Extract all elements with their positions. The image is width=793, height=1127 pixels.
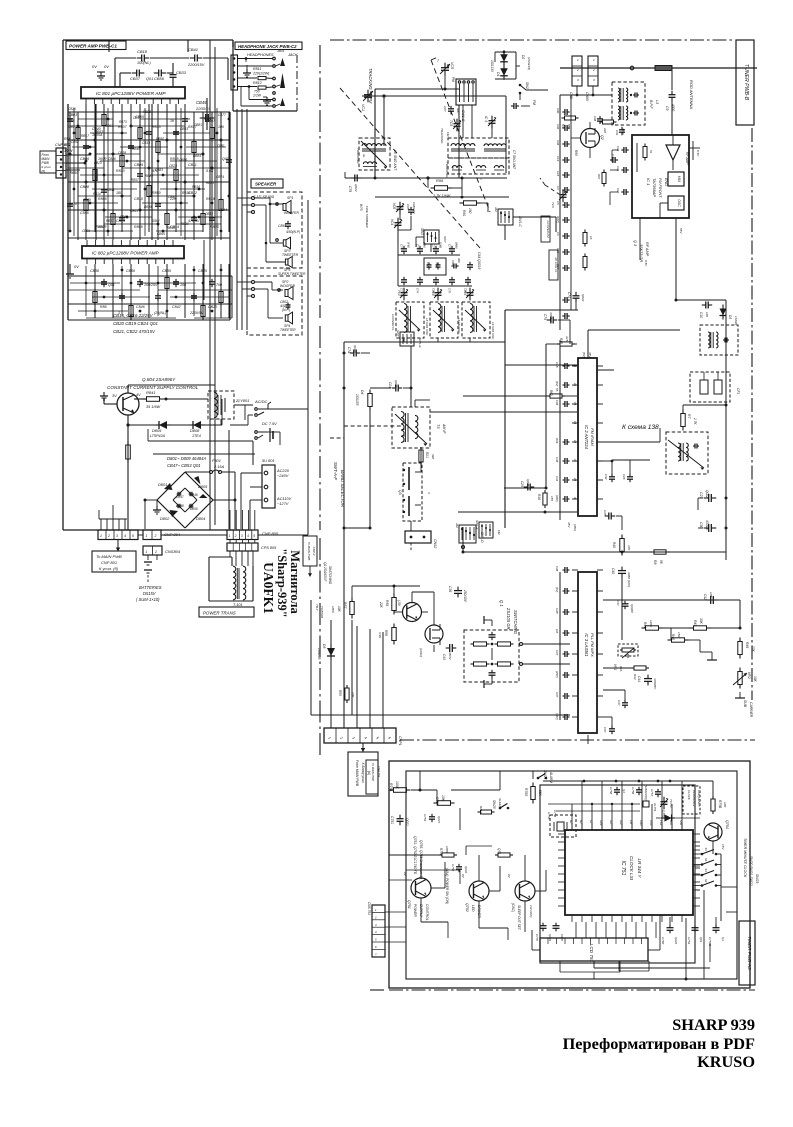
connector CN2 tuner — [585, 56, 598, 101]
svg-text:C9: C9 — [665, 106, 669, 110]
wire eq box top caps — [484, 616, 492, 688]
svg-text:Q022: Q022 — [526, 479, 530, 487]
svg-text:C846: C846 — [80, 211, 89, 215]
equalizer network dashed box — [464, 630, 527, 682]
svg-text:C71: C71 — [400, 244, 404, 250]
svg-text:2: 2 — [374, 915, 377, 919]
resistor R95 220 — [600, 120, 617, 133]
resistor R21 390 — [419, 447, 435, 465]
svg-text:CB83: CB83 — [180, 127, 188, 131]
svg-text:R841: R841 — [146, 390, 156, 395]
wire supply rails — [126, 399, 222, 530]
svg-text:C758: C758 — [609, 787, 613, 795]
svg-text:47DDV: 47DDV — [549, 312, 553, 323]
svg-text:R765: R765 — [524, 788, 528, 796]
svg-text:C79: C79 — [543, 314, 547, 320]
trimmer VC6 — [392, 202, 404, 215]
svg-text:R807: R807 — [118, 125, 128, 129]
wire mixer out bus — [675, 299, 727, 431]
svg-text:R873: R873 — [119, 120, 127, 124]
svg-text:C4?: C4? — [555, 650, 559, 656]
speaker SP4 tweeter R — [268, 289, 296, 332]
speaker SP2 woofer — [278, 287, 293, 313]
svg-text:C97: C97 — [616, 188, 620, 194]
svg-text:R95: R95 — [574, 150, 578, 156]
IC2 pin labels — [573, 352, 592, 499]
capacitors stage1 column — [67, 116, 232, 223]
svg-text:10K: 10K — [441, 795, 445, 802]
tracking coil group dashed box upper — [445, 138, 509, 178]
trimmer TC FM — [551, 190, 567, 208]
svg-text:(10V): (10V) — [555, 713, 559, 720]
svg-text:R42: R42 — [633, 674, 637, 680]
capacitor C44 4700/6V — [637, 675, 657, 691]
svg-text:ROD ANTENNA: ROD ANTENNA — [689, 80, 694, 109]
resistor R58 3.9K — [378, 624, 396, 645]
svg-text:56: 56 — [659, 560, 663, 564]
svg-text:1: 1 — [229, 534, 231, 538]
svg-text:RF AMP: RF AMP — [685, 152, 689, 165]
svg-text:2200/5V: 2200/5V — [189, 311, 204, 315]
svg-text:TRACKING: TRACKING — [445, 162, 449, 178]
antenna coil L6 SW2 ANT dashed box — [356, 138, 397, 171]
svg-text:CB08: CB08 — [80, 185, 89, 189]
label SPEAKER box — [251, 179, 283, 188]
svg-text:C7 SW1 ANT: C7 SW1 ANT — [512, 150, 516, 170]
svg-text:CNP 801: CNP 801 — [101, 560, 117, 565]
capacitor C2 FM — [511, 103, 530, 109]
relay ZLY801 — [208, 391, 249, 419]
svg-text:C760: C760 — [661, 937, 665, 945]
svg-text:C68(12V): C68(12V) — [412, 202, 416, 214]
ceramic filter CF1 dashed — [690, 372, 740, 402]
wire rail y197 — [375, 178, 509, 199]
svg-text:C35: C35 — [603, 510, 607, 516]
svg-text:33K: 33K — [699, 618, 703, 625]
wire timer left rails — [389, 835, 460, 912]
IC U2 AN7224 FM IF AM — [572, 358, 603, 516]
dashed gang linkage diagonal 1 — [340, 88, 480, 248]
capacitor C8 40P — [443, 106, 460, 114]
svg-text:FINE TRIMMER: FINE TRIMMER — [365, 206, 369, 228]
svg-text:CB20 CB19 CB24 Q01: CB20 CB19 CB24 Q01 — [113, 321, 158, 326]
diode D1 1SS133 — [490, 50, 508, 76]
svg-text:R21: R21 — [425, 452, 429, 458]
svg-text:R809: R809 — [134, 225, 143, 229]
label SWT-A-F BAND SELECTOR rotated — [333, 462, 345, 508]
capacitor bank row2 F.COVER — [398, 277, 472, 294]
wire bottom bus — [138, 409, 308, 535]
transistor Q753 sleep out set — [507, 874, 535, 931]
svg-text:331: 331 — [68, 119, 74, 123]
svg-text:CB41: CB41 — [188, 47, 198, 52]
capacitor C95 IC1 left pin1 — [616, 146, 632, 153]
svg-text:CB25: CB25 — [169, 164, 177, 168]
svg-text:J801: J801 — [276, 49, 284, 53]
svg-text:TICBTAB: TICBTAB — [320, 606, 324, 618]
svg-text:C29: C29 — [520, 481, 524, 487]
diode D2 1SS133 — [500, 55, 531, 80]
svg-text:C62: C62 — [451, 260, 455, 266]
svg-text:1SS133: 1SS133 — [490, 60, 494, 72]
resistor R18 155 — [537, 490, 554, 508]
svg-text:IC 751: IC 751 — [620, 861, 626, 876]
svg-text:C829: C829 — [68, 107, 76, 111]
svg-text:R806: R806 — [98, 197, 107, 201]
svg-text:FM: FM — [532, 100, 536, 105]
capacitor box C58 359 — [424, 258, 446, 275]
svg-text:1M: 1M — [555, 629, 559, 634]
capacitor C62 360 — [451, 258, 461, 269]
svg-text:R757: R757 — [479, 806, 483, 814]
svg-text:From MAIN PWB: From MAIN PWB — [355, 760, 359, 787]
ground bridge left — [144, 499, 162, 530]
svg-text:R82: R82 — [549, 390, 553, 396]
svg-text:Переформатирован в PDF: Переформатирован в PDF — [563, 1034, 755, 1053]
svg-text:D850: D850 — [190, 507, 198, 511]
svg-text:02A: 02A — [619, 666, 623, 671]
svg-text:R812: R812 — [253, 81, 262, 85]
svg-text:C881: C881 — [217, 144, 225, 148]
fuse F801 2.15A — [185, 458, 235, 474]
svg-text:CB83: CB83 — [155, 168, 163, 172]
svg-text:C28: C28 — [622, 474, 626, 480]
svg-text:C64 Q0015: C64 Q0015 — [477, 252, 481, 269]
svg-text:D805: D805 — [198, 484, 208, 489]
wire L6 leads — [368, 146, 384, 178]
svg-text:R81: R81 — [462, 210, 466, 216]
svg-text:C853: C853 — [71, 140, 79, 144]
svg-text:FM: FM — [497, 530, 501, 535]
svg-text:LCD 751: LCD 751 — [589, 944, 594, 963]
resistor R751 100K — [389, 781, 411, 792]
switch SW1-D FM AM — [455, 522, 484, 549]
svg-text:Q754: Q754 — [725, 820, 729, 829]
labels mesh1 — [64, 113, 229, 229]
trimmer row above cans — [397, 288, 474, 301]
svg-text:3.9K: 3.9K — [378, 632, 382, 639]
resistor R45 27K — [738, 638, 755, 659]
wire left rail junctions — [343, 387, 372, 530]
svg-text:Q022: Q022 — [405, 818, 409, 826]
capacitor C24 Q022 band — [370, 380, 402, 392]
svg-text:C13: C13 — [556, 156, 560, 162]
block POWER AMP PWB-C1 border — [63, 40, 252, 530]
switch SW1-F — [475, 520, 501, 538]
svg-text:SW1-F: SW1-F — [475, 520, 479, 530]
svg-text:Q022: Q022 — [548, 934, 552, 941]
wire T3 output rail — [415, 400, 505, 412]
capacitor C65 C68 — [398, 202, 416, 244]
oscillator can L9 AM OSC — [457, 302, 495, 340]
svg-text:100: 100 — [180, 283, 186, 287]
svg-text:F.COVER FL: F.COVER FL — [391, 314, 395, 331]
svg-text:C4?: C4? — [617, 700, 621, 706]
svg-text:L9 SW1 OSC: L9 SW1 OSC — [491, 322, 495, 340]
svg-text:CLOCK: CLOCK — [687, 790, 691, 800]
svg-text:R40: R40 — [612, 542, 616, 548]
bridge inner capacitor diamond CB47-CB50 — [173, 488, 198, 512]
svg-text:SW?: SW? — [443, 236, 447, 243]
svg-text:100: 100 — [705, 312, 709, 317]
svg-text:2: 2 — [154, 550, 157, 554]
svg-text:(45V): (45V) — [555, 671, 559, 678]
svg-text:S1: S1 — [704, 848, 708, 852]
label To MAIN PWB CNP801 box — [92, 551, 136, 572]
svg-text:RB17: RB17 — [81, 134, 89, 138]
svg-text:CB33: CB33 — [176, 70, 187, 75]
wire mesh extra verticals stage1 — [74, 108, 217, 236]
svg-text:L8 SW1 OSC: L8 SW1 OSC — [425, 318, 429, 336]
svg-text:(35V): (35V) — [555, 495, 559, 502]
svg-text:CB56: CB56 — [179, 158, 187, 162]
svg-text:К усил. (б): К усил. (б) — [99, 566, 119, 571]
svg-text:CB45: CB45 — [198, 269, 207, 273]
wire timer inner verticals — [437, 771, 710, 979]
svg-text:CB95: CB95 — [157, 232, 165, 236]
capacitor C91 2200 at IC1 pin — [615, 127, 625, 136]
svg-text:55: 55 — [555, 388, 559, 392]
capacitor C90 front column 1 — [556, 108, 570, 115]
wire FM tracking rails — [362, 88, 506, 179]
svg-text:(1M/22V(N)): (1M/22V(N)) — [644, 785, 648, 800]
svg-text:C65: C65 — [406, 204, 410, 210]
svg-text:SHARP 939: SHARP 939 — [672, 1015, 755, 1034]
svg-text:FREQUENCY: FREQUENCY — [697, 790, 701, 807]
comb connector ticks above CNP804 — [99, 505, 127, 530]
wire top cluster — [109, 40, 228, 87]
connector CNP804 pins 1-5 — [98, 530, 138, 540]
svg-text:4V: 4V — [136, 393, 141, 397]
speaker SP3 tweeter — [276, 237, 299, 257]
headphone jack J801 contacts — [273, 57, 285, 107]
svg-text:TC3: TC3 — [551, 202, 555, 208]
svg-text:RB84: RB84 — [193, 154, 201, 158]
resistor R755 56K — [524, 783, 542, 804]
svg-text:R86: R86 — [100, 305, 107, 309]
svg-text:120K: 120K — [649, 620, 653, 628]
svg-text:VC6: VC6 — [392, 203, 396, 209]
svg-text:C757: C757 — [650, 789, 654, 797]
wire relay top link — [215, 385, 221, 425]
svg-text:CB89: CB89 — [82, 229, 90, 233]
svg-text:(6V): (6V) — [555, 587, 559, 592]
oscillator can L8 F.COVER FL — [391, 302, 424, 338]
capacitors right trio C760 C753 C755 — [661, 917, 725, 946]
wire diode cluster — [495, 51, 520, 79]
wire row links — [398, 230, 470, 286]
svg-text:C841: C841 — [107, 188, 115, 192]
text SHARP 939 footer — [563, 1015, 755, 1071]
svg-text:2: 2 — [576, 68, 579, 72]
wire transistor row — [389, 855, 546, 932]
resistor R97 100 — [597, 170, 606, 187]
junction dots mesh 1 — [69, 125, 231, 226]
capacitor CB37 Q01 — [130, 70, 153, 82]
svg-text:C751: C751 — [390, 816, 394, 824]
connector CNS801 headphone — [231, 55, 238, 90]
svg-text:0V: 0V — [74, 264, 79, 269]
svg-text:C8?: C8? — [443, 106, 447, 112]
svg-text:100: 100 — [218, 125, 224, 129]
svg-text:R8: R8 — [653, 560, 657, 564]
svg-text:TB F: TB F — [315, 604, 319, 611]
svg-text:2: 2 — [234, 534, 237, 538]
wire IC2 pin9 rail — [458, 511, 577, 532]
svg-text:CB06: CB06 — [80, 157, 89, 161]
svg-text:C4B: C4B — [555, 608, 559, 614]
svg-text:Q1: Q1 — [721, 937, 725, 941]
svg-text:W?3: W?3 — [359, 204, 363, 211]
svg-text:R850: R850 — [152, 191, 161, 195]
left rc column of front end — [556, 95, 593, 330]
frame dash-dot right border — [751, 128, 753, 700]
resistor R46 15K — [668, 632, 689, 642]
svg-text:S4: S4 — [704, 858, 708, 862]
connector CNS804 — [143, 546, 181, 555]
svg-text:D5: D5 — [322, 644, 326, 648]
svg-text:IC 2 AN7224: IC 2 AN7224 — [584, 425, 589, 449]
potentiometer VR2 10K sub carrier — [733, 668, 757, 718]
svg-text:CNP 804: CNP 804 — [164, 532, 181, 537]
labels stage2 — [90, 269, 222, 315]
svg-text:2200/15: 2200/15 — [195, 106, 211, 111]
svg-text:(6V): (6V) — [582, 352, 586, 358]
svg-text:PLL FM MPX: PLL FM MPX — [590, 633, 595, 657]
voltage selector SW801 — [262, 458, 292, 508]
capacitor C37 Q0068 at IC3 — [616, 600, 634, 613]
svg-text:Q047: Q047 — [437, 816, 441, 823]
svg-text:DC 7.5V: DC 7.5V — [262, 421, 277, 426]
svg-text:RB46: RB46 — [132, 147, 140, 151]
svg-text:S3: S3 — [704, 869, 708, 873]
stage2 dots — [85, 269, 223, 313]
svg-text:C47: C47 — [555, 692, 559, 698]
wire C40 down — [621, 576, 623, 640]
label To MAIN PWB CNP-2 box — [303, 536, 317, 577]
op-amp triangle RF AMP inside IC1 — [666, 135, 689, 170]
switch SW1-A small box — [420, 228, 447, 244]
svg-text:CNP 751: CNP 751 — [377, 766, 381, 778]
svg-text:1SS99: 1SS99 — [734, 316, 738, 325]
svg-text:Q752: Q752 — [465, 903, 469, 912]
svg-text:C829: C829 — [83, 198, 91, 202]
svg-text:Q022: Q022 — [354, 184, 358, 192]
resistor R56 22K — [379, 594, 396, 615]
label POWER AMP PWB-C1 — [66, 41, 126, 50]
capacitor C9 4000 — [665, 68, 676, 135]
svg-text:FM FRONT: FM FRONT — [658, 178, 662, 198]
svg-text:R821: R821 — [204, 117, 212, 121]
svg-text:2: 2 — [592, 68, 595, 72]
svg-text:R46: R46 — [671, 634, 675, 640]
junction dots extra — [69, 118, 231, 233]
wire detector area — [597, 404, 728, 443]
svg-text:R56: R56 — [385, 600, 389, 606]
svg-text:TC1: TC1 — [463, 290, 467, 296]
svg-text:BATTERIES: BATTERIES — [139, 585, 162, 590]
wire CNP1 arrow down — [361, 743, 365, 752]
resistor R82 55 — [547, 388, 577, 398]
switch column SW20-SW23 — [693, 848, 737, 922]
svg-text:100(NL): 100(NL) — [137, 61, 151, 65]
resistor R811 220(1/2W) — [252, 67, 273, 80]
svg-text:C74: C74 — [567, 292, 571, 298]
svg-text:D808: D808 — [190, 428, 200, 433]
svg-text:RB50: RB50 — [156, 137, 164, 141]
svg-text:TWEETER: TWEETER — [282, 253, 299, 257]
resistor R43 33K — [690, 618, 711, 630]
svg-text:L3: L3 — [655, 100, 659, 104]
note D801-D804 bridge values — [167, 456, 206, 468]
capacitor C35 250/10V — [448, 586, 467, 603]
svg-text:CB03: CB03 — [68, 113, 77, 117]
wire jack to right rail — [267, 409, 308, 445]
svg-text:C75: C75 — [432, 244, 436, 250]
svg-text:HEADPHONES: HEADPHONES — [247, 53, 274, 57]
wire selector feeds — [241, 473, 262, 529]
svg-text:R820: R820 — [181, 222, 189, 226]
svg-text:ZLY801: ZLY801 — [235, 398, 249, 403]
svg-text:2.7K: 2.7K — [693, 417, 697, 425]
svg-text:(10V): (10V) — [556, 216, 560, 223]
svg-text:PM: PM — [451, 77, 455, 82]
svg-text:R18: R18 — [537, 494, 541, 500]
label W3 fine trimmer — [359, 204, 369, 228]
note Q751 Q752 types — [413, 836, 423, 879]
svg-text:"Sharp-939": "Sharp-939" — [275, 548, 289, 617]
capacitor C29 Q022 low — [520, 479, 534, 491]
svg-text:CB38: CB38 — [118, 151, 126, 155]
svg-text:Магнитола: Магнитола — [288, 550, 302, 614]
svg-text:C58: C58 — [426, 262, 430, 268]
svg-text:R810: R810 — [116, 169, 125, 173]
variable capacitor VC1 — [361, 90, 373, 111]
svg-text:D4: D4 — [360, 390, 364, 394]
svg-text:SP1: SP1 — [287, 196, 294, 200]
wire CNS751 links — [385, 860, 406, 942]
detector coil T4 dashed box — [666, 432, 708, 474]
note CB15 CB16 values — [113, 313, 158, 334]
wire rail y178 — [345, 172, 507, 180]
capacitor C98 at Q2 — [593, 116, 603, 124]
svg-text:C886: C886 — [108, 157, 116, 161]
svg-text:CB38: CB38 — [90, 269, 99, 273]
capacitor CB41 2200/15V — [187, 47, 205, 67]
svg-text:AM: AM — [494, 206, 498, 212]
svg-text:( SUM-1×10): ( SUM-1×10) — [136, 597, 160, 602]
diode D5 1SS155 — [317, 644, 335, 660]
svg-text:SW1-E: SW1-E — [418, 338, 422, 349]
svg-text:13: 13 — [573, 421, 577, 425]
wire long rail right segment — [630, 551, 726, 553]
svg-text:12: 12 — [573, 440, 577, 444]
svg-text:C73: C73 — [416, 244, 420, 250]
ground IC802 left — [66, 264, 79, 278]
connector CNP804 aux 1-2 — [143, 530, 181, 540]
wire AC feed rails — [148, 429, 255, 529]
capacitor C10 100 — [699, 302, 712, 319]
misc top components timer — [609, 781, 713, 812]
resistor R40 47K — [612, 535, 631, 556]
svg-text:C877: C877 — [218, 113, 226, 117]
label J801 JACK — [247, 49, 298, 57]
wire arrow CNP804 down — [116, 540, 120, 552]
svg-text:CNP1: CNP1 — [398, 736, 402, 746]
FET Q1 2SJ105 — [419, 624, 443, 657]
bandpass filter L3 dashed box — [612, 82, 659, 125]
wire transistor collectors down — [421, 908, 508, 940]
